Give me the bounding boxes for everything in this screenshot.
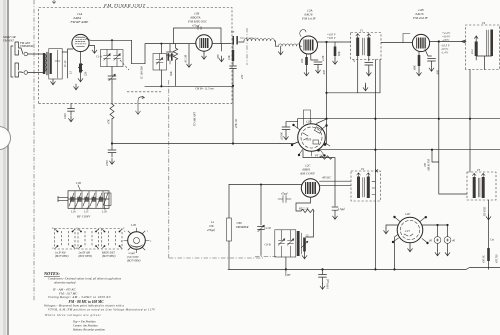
dash-dot AM/FM divider horizontal	[169, 257, 263, 259]
svg-text:6: 6	[124, 230, 126, 233]
cap C3 1000 to ground	[68, 104, 75, 116]
osc coil L5	[297, 231, 300, 256]
svg-text:1000 μμf: 1000 μμf	[327, 278, 330, 289]
svg-text:T4: T4	[482, 21, 486, 25]
dash-dot AM/FM divider vertical	[168, 80, 170, 258]
V5 diag pin to bus	[317, 119, 327, 124]
svg-text:47: 47	[353, 59, 356, 62]
cathode loop R9 2.2K	[296, 198, 311, 212]
IF can bottom view 2	[78, 229, 99, 250]
T2 AM IF transformer dashed box	[351, 171, 380, 201]
svg-text:HF: HF	[286, 274, 291, 277]
svg-text:220: 220	[301, 58, 304, 63]
tube V7 audio out socket view	[397, 217, 423, 243]
T3 output chain	[488, 200, 490, 248]
svg-text:Δ150K: Δ150K	[281, 132, 284, 141]
svg-text:(BOT VIEW): (BOT VIEW)	[79, 255, 93, 258]
below gang: trimmer C2	[108, 67, 116, 83]
tuner shaft assembly	[58, 191, 111, 209]
bottom link wire y92.8	[327, 92, 381, 94]
svg-text:L1D: L1D	[101, 211, 107, 214]
svg-text:12E: 12E	[405, 212, 410, 216]
T1 core	[363, 38, 365, 55]
tube V5 6T8 det-avc-af socket view	[298, 124, 326, 152]
V4 plate wire to ratio det	[430, 41, 466, 43]
punch hole	[0, 127, 11, 150]
trimmer C13 on grid line	[258, 185, 265, 256]
wire ant to coil	[21, 48, 44, 73]
grid wire to V1	[62, 49, 73, 78]
svg-text:68K: 68K	[414, 65, 417, 70]
V3 plate wire	[318, 41, 351, 43]
V4 bypass cap C11	[425, 50, 436, 66]
svg-text:Where three voltages are given: Where three voltages are given:	[45, 313, 101, 317]
svg-text:60: 60	[429, 239, 433, 243]
svg-text:T3: T3	[477, 168, 481, 172]
AVC bus y143.5	[112, 143, 280, 145]
svg-text:+105 V: +105 V	[327, 37, 336, 40]
V4 input wire with grid step	[381, 42, 413, 44]
V6 grid wire	[229, 184, 301, 186]
svg-text:VTVM, A.M./FM position as note: VTVM, A.M./FM position as noted on Line …	[48, 308, 156, 313]
svg-text:4700: 4700	[106, 160, 109, 166]
svg-text:RT 470K: RT 470K	[484, 206, 487, 217]
T4 secondary coil	[490, 30, 493, 57]
cap C15 47uuf	[278, 196, 291, 203]
cap C4 4700 below junction	[108, 144, 116, 158]
svg-text:450 5K: 450 5K	[483, 255, 486, 263]
V4 cathode resistor R7	[418, 52, 420, 56]
svg-text:K: K	[75, 247, 78, 250]
svg-text:AM & FM: AM & FM	[428, 159, 431, 172]
svg-text:TO AM ANT: TO AM ANT	[194, 112, 197, 126]
svg-text:56K: 56K	[170, 71, 173, 76]
choke L2 inline	[244, 39, 274, 41]
svg-text:P: P	[75, 227, 78, 230]
electrolytic C17 60	[437, 225, 439, 237]
svg-text:(BOT VIEW): (BOT VIEW)	[102, 255, 116, 258]
V6 plate wire to T2	[320, 181, 352, 185]
cap C16 4.7uuf to gnd	[332, 207, 338, 213]
B+ arrow near T1	[365, 83, 367, 88]
link arrow to AM ant	[138, 96, 145, 114]
ground bus y269.4	[228, 268, 500, 270]
AVC stub arrow	[188, 44, 190, 61]
core	[47, 52, 48, 75]
tuning gang C1 box	[101, 40, 124, 66]
B+ bus y118.5	[298, 119, 500, 128]
svg-text:10K: 10K	[228, 55, 231, 60]
bus y149.5	[318, 149, 500, 152]
T4 primary coil	[475, 42, 478, 57]
T3 AM IF transformer dashed box	[467, 172, 496, 200]
svg-text:Tuning Range: AM - 540KC to 1: Tuning Range: AM - 540KC to 1650 KC	[48, 295, 112, 299]
resistor R6 82K to ground	[334, 42, 336, 47]
V5 pin stubs	[291, 124, 330, 157]
V7 bottom pin arrow	[409, 243, 411, 246]
T1 right pin down long bus x375.8	[374, 60, 376, 270]
svg-text:.005: .005	[323, 70, 326, 75]
electrolytic C18 40	[447, 225, 449, 237]
T4 ratio det dashed box	[466, 25, 500, 70]
AM osc gang box C14	[275, 230, 296, 257]
long vertical x326.5	[326, 42, 328, 144]
svg-text:1: 1	[147, 230, 148, 233]
svg-text:ATC: ATC	[217, 54, 220, 60]
antenna dipole	[11, 42, 21, 77]
ground below shield box	[51, 79, 56, 85]
svg-text:C1-A: C1-A	[96, 56, 102, 59]
svg-text:L1B: L1B	[130, 224, 136, 227]
chassis dash-dot boundary left	[33, 0, 35, 301]
svg-text:TERMINAL: TERMINAL	[20, 44, 34, 48]
V7 pin stubs	[392, 216, 429, 244]
svg-text:465 KC: 465 KC	[322, 176, 332, 180]
svg-text:-2.8 V: -2.8 V	[442, 38, 450, 42]
T1 FM IF transformer dashed box	[351, 33, 381, 60]
svg-text:470: 470	[241, 74, 244, 79]
svg-text:L3: L3	[70, 70, 73, 75]
svg-text:Cxx: Cxx	[490, 239, 495, 242]
dashed segment below osc	[127, 91, 161, 93]
svg-text:C2-M: C2-M	[264, 227, 271, 230]
resistor R2 47K in AVC column	[110, 104, 114, 144]
V3 bypass cap C9	[311, 54, 322, 68]
svg-text:≈2 μμf: ≈2 μμf	[128, 252, 136, 255]
coil L1 secondary in shield box	[49, 49, 62, 80]
svg-text:G: G	[52, 247, 54, 250]
T1 primary coil	[356, 38, 359, 57]
page edge shading	[0, 0, 7, 335]
V7 left ground	[386, 225, 398, 228]
svg-text:IC 160-260: IC 160-260	[141, 66, 144, 80]
svg-text:1000: 1000	[64, 113, 67, 119]
svg-text:B: B	[52, 227, 54, 230]
svg-text:(BOT VIEW): (BOT VIEW)	[127, 260, 141, 263]
cap C12 at V5 left	[282, 122, 290, 134]
ground between chokes	[280, 46, 282, 49]
V5 bottom pin wire to 2.2K	[303, 151, 335, 207]
cap C19 1000uuf	[321, 268, 323, 270]
resistor R3 56K	[175, 44, 177, 48]
V3 below resistor R5	[306, 54, 308, 57]
FM tuner unit dashed box	[39, 8, 233, 104]
tube socket bottom view	[124, 228, 149, 253]
AM ant vertical + resistor R8	[228, 185, 230, 219]
osc box bottom to bus	[285, 257, 287, 269]
svg-text:(BOT VIEW): (BOT VIEW)	[55, 255, 69, 258]
svg-text:RT 2.2K: RT 2.2K	[298, 207, 310, 211]
AM-FM step wire	[432, 150, 439, 162]
svg-text:-1.4 V: -1.4 V	[441, 50, 449, 54]
svg-text:5: 5	[121, 240, 123, 243]
svg-text:NOTES:: NOTES:	[43, 271, 60, 276]
svg-text:L1A: L1A	[70, 211, 76, 214]
tube V3 FM 1st IF	[300, 36, 318, 54]
IF can bottom view 3	[102, 229, 123, 250]
coupling cap C8	[212, 43, 231, 45]
svg-text:220: 220	[85, 71, 88, 76]
V5 top feeds	[304, 110, 311, 125]
svg-text:47K 1W: 47K 1W	[235, 118, 238, 128]
svg-text:82K: 82K	[338, 51, 341, 56]
svg-text:FM TUNER UNIT: FM TUNER UNIT	[103, 3, 146, 8]
T2 secondary taps to output line	[372, 182, 375, 195]
page edge line	[7, 0, 9, 335]
svg-text:2: 2	[150, 240, 152, 243]
V5 left pin to AVC bus	[280, 142, 298, 144]
tube V2 FM OSC	[196, 35, 212, 51]
svg-text:FM RF AMP: FM RF AMP	[70, 20, 89, 24]
svg-text:4.7μμf: 4.7μμf	[338, 208, 346, 211]
T1 bottom connections	[358, 56, 369, 93]
osc tuning cap C5 box	[153, 44, 167, 86]
svg-text:AM CONV: AM CONV	[299, 172, 316, 176]
x438.8 long vertical	[439, 42, 467, 195]
T1 secondary coil	[367, 38, 370, 57]
trimmer C6	[167, 44, 174, 57]
svg-text:10K: 10K	[209, 225, 214, 228]
svg-text:C6-B: C6-B	[265, 244, 271, 247]
V1 plate line	[86, 39, 132, 41]
osc coil ground	[304, 252, 306, 254]
notes block	[43, 271, 156, 332]
V2 cathode ground	[203, 51, 205, 53]
coil L1 primary	[44, 54, 46, 72]
svg-text:4.7K: 4.7K	[322, 56, 325, 61]
svg-text:40: 40	[452, 239, 456, 243]
tube V6 AM CONV	[301, 179, 319, 197]
svg-text:47μμf: 47μμf	[281, 193, 289, 196]
osc section plate step wire	[132, 40, 197, 63]
svg-text:12D: 12D	[306, 120, 312, 124]
svg-text:L1C: L1C	[83, 211, 89, 214]
T4 primary arrow in	[474, 36, 478, 42]
svg-text:otherwise marked: otherwise marked	[54, 281, 76, 285]
svg-text:RF CONV: RF CONV	[76, 215, 91, 219]
svg-text:AC 1M: AC 1M	[185, 54, 188, 64]
osc feedback loop C7	[174, 28, 222, 44]
dash-dot shield near coil L2	[240, 28, 258, 65]
tube V1 FM RF AMP	[72, 34, 89, 51]
svg-text:PT 2.2K: PT 2.2K	[314, 153, 326, 157]
svg-text:470 750: 470 750	[496, 254, 499, 263]
svg-text:L4: L4	[210, 221, 215, 224]
svg-text:12±: 12±	[405, 229, 410, 233]
x470 long vertical	[469, 70, 471, 173]
wire x233 down to AVC bus	[232, 86, 234, 144]
resistor R4 10K on x233	[232, 44, 234, 50]
svg-text:FM 1st IF: FM 1st IF	[301, 17, 317, 21]
svg-text:T1: T1	[360, 29, 364, 33]
bus B+ osc y86	[145, 85, 233, 87]
V3 grid cap curl	[300, 30, 306, 37]
svg-text:T2: T2	[361, 167, 365, 171]
svg-text:P: P	[99, 227, 102, 230]
svg-text:CH B+ 11.5 mv: CH B+ 11.5 mv	[195, 87, 214, 91]
svg-text:43-2: 43-2	[471, 49, 474, 54]
choke L3 inline	[279, 44, 301, 46]
svg-text:6T8: 6T8	[307, 138, 312, 142]
cap C10 47 to line	[365, 63, 373, 77]
V7 left-bottom pin down to bus	[395, 235, 398, 270]
IF can bottom view 1	[55, 229, 76, 250]
top edge tick	[52, 0, 56, 4]
svg-text:47K: 47K	[108, 119, 111, 124]
svg-text:4.7μμf: 4.7μμf	[192, 24, 201, 28]
svg-text:IC 40: IC 40	[64, 60, 67, 68]
svg-text:≈580: ≈580	[236, 222, 242, 225]
svg-text:Bottom: Recorder position: Bottom: Recorder position	[73, 328, 105, 332]
svg-text:FM MIX OSC: FM MIX OSC	[187, 20, 208, 24]
gang link dashed	[120, 60, 129, 70]
gang dash link	[255, 255, 276, 257]
svg-text:FM 2nd IF: FM 2nd IF	[412, 16, 429, 20]
T4 bottom wiring	[476, 56, 492, 70]
V1 cathode resistor R1	[79, 52, 83, 76]
svg-text:TRIMMER: TRIMMER	[236, 226, 249, 229]
tube V4 FM 2nd IF	[412, 34, 429, 51]
V7 right pin wire	[422, 224, 447, 226]
T4 core	[487, 30, 489, 56]
svg-text:470μμf: 470μμf	[207, 229, 216, 232]
svg-text:FM ANT: FM ANT	[2, 39, 14, 43]
V2 right ground	[221, 44, 223, 51]
terminal posts	[24, 52, 28, 56]
ground at V1 right	[89, 46, 95, 48]
svg-text:TP: TP	[231, 31, 235, 34]
svg-text:L1B: L1B	[75, 181, 81, 185]
small arrow under box	[74, 84, 79, 90]
